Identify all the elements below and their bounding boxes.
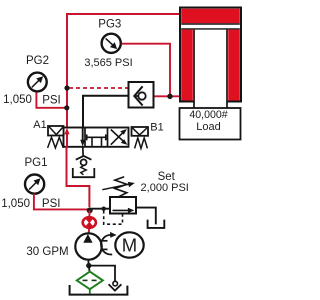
electric motor M1 xyxy=(115,232,143,257)
shaft coupling pump to motor xyxy=(102,241,108,250)
gauge PG1 xyxy=(25,175,44,194)
rod gap in bottom border xyxy=(195,99,227,104)
wire: check valve outlet to cylinder rod-end port xyxy=(146,95,182,97)
wire: pressure line from valve port A up and across to cylinder cap end xyxy=(67,14,181,128)
wire: flow indicator to pump outlet (red) xyxy=(88,228,91,234)
wire: valve port B to check valve inlet xyxy=(83,96,135,127)
wire: pump suction down to strainer junction xyxy=(87,260,89,266)
check valve V1 (pilot operated) xyxy=(129,82,154,108)
rod-end fluid left xyxy=(181,30,193,101)
svg-text:40,000#: 40,000# xyxy=(189,109,227,121)
left envelope flow arrow B to T (black) xyxy=(80,128,85,147)
wire: pilot line (dashed) from A-line to pilot-operated check valve xyxy=(69,87,129,89)
node: suction junction xyxy=(86,263,91,268)
reservoir (main tank) xyxy=(70,285,128,295)
cylinder C1 (barrel) xyxy=(180,8,241,109)
reservoir at relief outlet xyxy=(148,220,165,228)
svg-text:Load: Load xyxy=(196,121,220,133)
solenoid (left) xyxy=(48,126,64,136)
piston xyxy=(181,23,240,25)
piston rod sides xyxy=(193,30,195,109)
wire: gauge PG2 connection to A-line xyxy=(36,92,66,108)
tank-port drain check and reservoir under valve xyxy=(73,147,95,177)
spring (left end) xyxy=(48,137,64,148)
left envelope flow arrow P to A (red, engaged path) xyxy=(64,128,69,147)
spring (right end) xyxy=(135,138,148,149)
svg-text:1,050: 1,050 xyxy=(1,198,30,210)
node: relief pilot tee xyxy=(102,207,106,211)
wire: relief valve outlet to reservoir xyxy=(136,208,156,225)
wire: junction to relief valve inlet (black) xyxy=(89,208,110,210)
svg-text:PSI: PSI xyxy=(42,198,61,210)
node: pump discharge junction xyxy=(87,207,93,213)
pump P1 xyxy=(75,233,101,259)
node: pilot branch junction on A-line xyxy=(64,85,69,90)
flow indicator / test point (red circle with X) xyxy=(83,217,96,228)
relief valve RV1 xyxy=(102,177,136,225)
svg-text:PG1: PG1 xyxy=(24,157,47,169)
rod-end fluid right xyxy=(228,30,240,101)
svg-text:PSI: PSI xyxy=(42,94,61,106)
svg-text:PG2: PG2 xyxy=(26,55,49,67)
svg-text:M: M xyxy=(122,235,137,256)
svg-text:A1: A1 xyxy=(33,119,46,131)
load box (40,000# Load) xyxy=(180,108,241,140)
right envelope crossed-flow arrows xyxy=(111,129,128,145)
svg-text:3,565 PSI: 3,565 PSI xyxy=(84,57,132,69)
wire: branch to tank drain leg xyxy=(89,266,115,282)
node: junction of PG3 drop line and rod-end line xyxy=(167,94,172,99)
wire: PG3 gauge to junction above check valve outlet xyxy=(122,44,171,97)
wire: PG1 to pump discharge junction xyxy=(34,194,90,210)
svg-text:30 GPM: 30 GPM xyxy=(26,246,68,258)
solenoid (right) xyxy=(132,127,149,136)
svg-text:2,000 PSI: 2,000 PSI xyxy=(141,182,189,194)
svg-text:1,050: 1,050 xyxy=(3,94,32,106)
wire: junction to filter top xyxy=(88,266,91,272)
centre envelope blocked symbol (H) xyxy=(87,134,107,146)
svg-text:PG3: PG3 xyxy=(98,18,121,30)
wire: valve port P down to pump discharge junction xyxy=(67,147,90,207)
node: PG2 branch junction on A-line xyxy=(64,105,69,110)
suction filter F1 (green diamond) xyxy=(77,272,103,294)
gauge PG3 xyxy=(102,34,121,53)
svg-text:B1: B1 xyxy=(150,122,163,134)
wire: junction down to flow indicator (red) xyxy=(88,210,90,218)
rotation direction arrow xyxy=(101,232,117,255)
drain diffuser in tank xyxy=(109,281,122,290)
cap-end fluid (red) xyxy=(181,9,240,24)
directional valve DV1 body (three position envelopes) xyxy=(64,128,129,147)
gauge PG2 xyxy=(28,73,47,92)
